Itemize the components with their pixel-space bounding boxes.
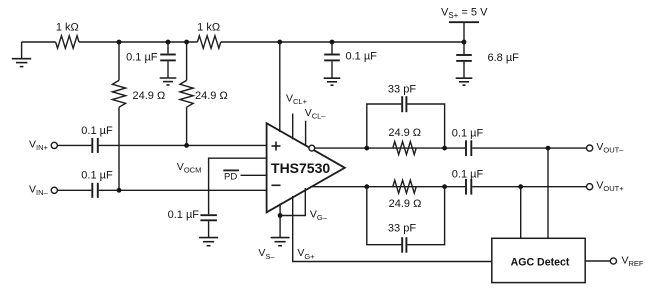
wire VIN+ to C4 xyxy=(57,144,91,146)
svg-text:VREF: VREF xyxy=(622,255,644,269)
svg-text:1 kΩ: 1 kΩ xyxy=(56,22,79,34)
node junction VS-/VG- xyxy=(278,213,283,218)
node junction out- / AGC sense xyxy=(546,146,551,151)
wire PD pin xyxy=(241,174,267,176)
capacitor C10 33 pF bottom loop xyxy=(367,187,445,253)
svg-text:0.1 µF: 0.1 µF xyxy=(126,51,158,63)
wire AGC sense from out- xyxy=(547,148,549,238)
ground G5 under C6 xyxy=(199,238,218,246)
svg-text:PD: PD xyxy=(224,171,237,182)
svg-text:VG–: VG– xyxy=(310,208,328,222)
wire VG- tied to VS- xyxy=(280,188,305,216)
ground G1 top-left xyxy=(12,42,31,67)
ground G6 VS- xyxy=(271,238,290,246)
svg-text:0.1 µF: 0.1 µF xyxy=(81,169,113,181)
ground G2 under C1 xyxy=(160,78,177,85)
capacitor C6 0.1 uF on VOCM xyxy=(200,215,217,237)
resistor R5 24.9 Ohm xyxy=(393,142,416,155)
svg-text:6.8 µF: 6.8 µF xyxy=(488,52,520,64)
wire VREF xyxy=(585,260,610,262)
wire top rail left segment xyxy=(22,41,56,43)
svg-text:24.9 Ω: 24.9 Ω xyxy=(388,127,421,139)
svg-text:AGC Detect: AGC Detect xyxy=(511,257,570,269)
node junction rail/R3 xyxy=(117,40,122,45)
wire VG+ pin to AGC xyxy=(293,196,492,262)
svg-text:VOUT–: VOUT– xyxy=(596,141,624,155)
svg-text:VCL–: VCL– xyxy=(305,107,327,121)
wire out- to terminal xyxy=(472,147,586,149)
wire AGC sense from out+ xyxy=(520,187,522,239)
node junction rail/C1 xyxy=(166,40,171,45)
svg-text:VCL+: VCL+ xyxy=(286,93,308,107)
pin VCL+ xyxy=(292,114,294,140)
node junction rail/R4 xyxy=(184,40,189,45)
op-amp U1 THS7530 xyxy=(267,123,345,212)
capacitor C8 0.1 uF out+ xyxy=(466,179,471,195)
node junction rail/C3 VS+ xyxy=(462,40,467,45)
node junction rail/C2 xyxy=(330,40,335,45)
node junction out+ / AGC sense xyxy=(518,184,523,189)
wire output VOUT+ line xyxy=(311,186,466,188)
wire output VOUT- line xyxy=(315,147,466,149)
terminal VIN+ xyxy=(51,142,57,148)
node junction R3/VIN- line xyxy=(117,188,122,193)
resistor R3 24.9 Ohm vertical xyxy=(112,42,125,190)
svg-text:33 pF: 33 pF xyxy=(388,222,416,234)
node junction out+ / loop left xyxy=(364,184,369,189)
wire top rail middle segment xyxy=(79,41,197,43)
wire VIN- line to amp xyxy=(99,189,267,191)
node junction rail/supply pin xyxy=(277,40,282,45)
wire VIN+ line to amp xyxy=(99,144,267,146)
label U1 minus input xyxy=(272,184,281,186)
wire VOCM pin xyxy=(209,158,267,214)
svg-text:VS–: VS– xyxy=(258,247,275,261)
wire VIN- to C5 xyxy=(57,189,91,191)
svg-text:VIN–: VIN– xyxy=(29,183,49,197)
resistor R2 1 kOhm xyxy=(197,36,220,49)
capacitor C7 0.1 uF out- xyxy=(466,140,471,156)
label U1 plus input xyxy=(272,142,281,151)
ground G4 under C3 xyxy=(456,78,473,85)
resistor R4 24.9 Ohm vertical xyxy=(180,42,193,145)
svg-text:1 kΩ: 1 kΩ xyxy=(197,22,220,34)
wire top rail right segment xyxy=(221,41,464,43)
svg-text:0.1 µF: 0.1 µF xyxy=(452,128,484,140)
terminal VOUT+ xyxy=(587,184,593,190)
svg-text:33 pF: 33 pF xyxy=(388,84,416,96)
node junction out- / loop left xyxy=(364,146,369,151)
svg-text:THS7530: THS7530 xyxy=(271,160,330,176)
terminal VIN- xyxy=(51,187,57,193)
svg-text:24.9 Ω: 24.9 Ω xyxy=(133,90,166,102)
label PD-bar xyxy=(223,170,239,182)
node junction out- / loop right xyxy=(442,146,447,151)
capacitor C5 0.1 uF input xyxy=(92,183,98,198)
terminal VREF xyxy=(610,258,616,264)
node junction out+ / loop right xyxy=(442,184,447,189)
svg-text:VS+ = 5 V: VS+ = 5 V xyxy=(441,6,488,20)
svg-text:0.1 µF: 0.1 µF xyxy=(452,168,484,180)
svg-text:24.9 Ω: 24.9 Ω xyxy=(195,90,228,102)
svg-text:0.1 µF: 0.1 µF xyxy=(81,125,113,137)
svg-text:VOUT+: VOUT+ xyxy=(596,179,624,193)
block AGC Detect xyxy=(492,238,585,282)
pin VS- to ground xyxy=(279,204,281,238)
node junction R4/VIN+ line xyxy=(184,143,189,148)
power VS+ rail symbol xyxy=(449,22,479,42)
svg-text:24.9 Ω: 24.9 Ω xyxy=(389,198,422,210)
wire out+ to terminal xyxy=(472,186,586,188)
resistor R6 24.9 Ohm xyxy=(393,180,416,193)
resistor R1 1 kOhm xyxy=(56,36,79,49)
svg-text:0.1 µF: 0.1 µF xyxy=(346,51,378,63)
capacitor C4 0.1 uF input xyxy=(92,138,98,153)
svg-text:VIN+: VIN+ xyxy=(29,138,49,152)
ground G3 under C2 xyxy=(324,78,341,85)
terminal VOUT- xyxy=(587,145,593,151)
capacitor C2 0.1 uF bypass xyxy=(324,42,340,78)
wire supply pin from rail into U1 xyxy=(279,42,281,132)
pin VCL- xyxy=(305,121,307,146)
svg-text:0.1 µF: 0.1 µF xyxy=(168,209,200,221)
capacitor C1 0.1 uF bypass xyxy=(160,42,176,78)
capacitor C3 6.8 uF xyxy=(456,42,472,78)
bubble inverting output xyxy=(309,145,315,151)
svg-text:VG+: VG+ xyxy=(297,247,315,261)
svg-text:VOCM: VOCM xyxy=(177,161,202,175)
capacitor C9 33 pF top loop xyxy=(367,96,445,148)
